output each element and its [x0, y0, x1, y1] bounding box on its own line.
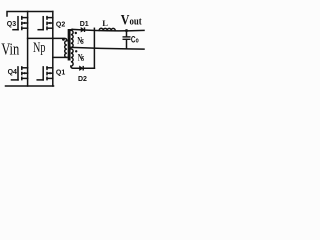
transformer secondary winding Ns top: [71, 30, 73, 47]
secondary top exit: [71, 28, 72, 31]
wire left bridge leg: [27, 12, 29, 87]
wire right bridge leg: [52, 12, 54, 87]
svg-text:Np: Np: [33, 39, 45, 55]
diode D2: [80, 66, 84, 71]
secondary bottom exit: [71, 66, 73, 68]
svg-text:D1: D1: [80, 21, 89, 28]
svg-text:Q1: Q1: [56, 69, 65, 76]
svg-text:Q3: Q3: [7, 21, 16, 28]
wire D2 line: [73, 67, 94, 69]
secondary top polarity dot: [75, 32, 77, 34]
transistor Q4: [12, 66, 28, 80]
transistor Q1: [37, 66, 53, 80]
wire bottom rail: [6, 85, 54, 87]
transformer primary winding Np: [65, 41, 67, 58]
svg-text:L: L: [102, 18, 108, 28]
svg-text:Q4: Q4: [8, 69, 17, 76]
capacitor Co: [123, 31, 130, 49]
svg-text:Vin: Vin: [1, 41, 20, 59]
transistor Q2: [38, 16, 53, 30]
transformer core: [68, 30, 69, 60]
secondary bottom polarity dot: [75, 50, 77, 52]
junction dot at Co: [125, 29, 128, 32]
transistor Q3: [13, 16, 28, 30]
diode D1: [81, 27, 85, 32]
primary polarity dot: [62, 38, 65, 41]
svg-text:Ns: Ns: [78, 52, 85, 64]
wire node B to primary bottom: [53, 56, 67, 58]
svg-text:Co: Co: [131, 34, 139, 44]
wire node A to primary top (crosses right leg): [28, 38, 67, 40]
wire center tap return line (slight scan sag): [71, 47, 144, 49]
wire output top line (slight scan sag): [72, 29, 144, 30]
wire riser D2 to output: [93, 28, 95, 68]
svg-text:D2: D2: [78, 76, 87, 83]
transformer secondary winding Ns bottom: [71, 49, 73, 66]
inductor L: [99, 28, 115, 30]
wire top rail with input tick: [7, 12, 53, 17]
svg-text:Ns: Ns: [77, 35, 84, 47]
svg-text:Q2: Q2: [56, 21, 65, 28]
